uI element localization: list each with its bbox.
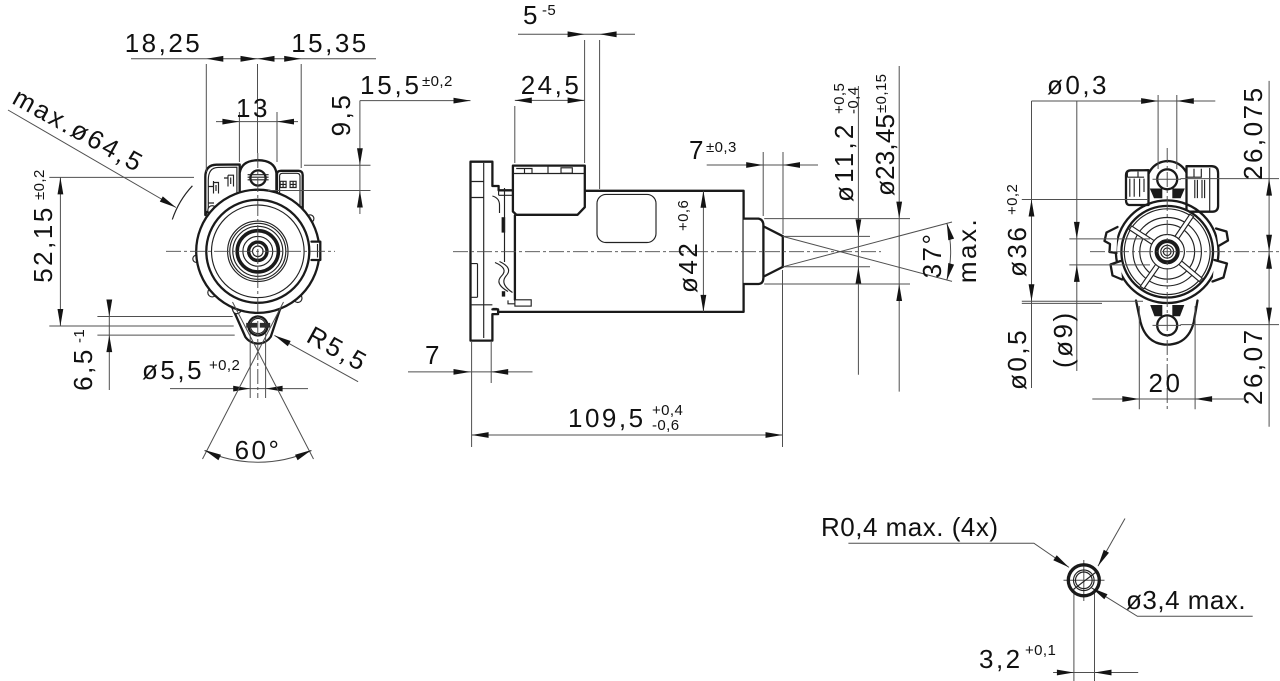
R5,5 text [302,320,373,378]
dia 5,5 ext lines [250,333,265,398]
spring washer wavy clip [495,263,508,292]
R5,5 leader line [274,335,358,381]
dim dia0,5 ext line [1022,302,1102,304]
dim 26,075 text [1238,85,1268,180]
dim 24,5 dimension line [515,99,585,101]
svg-text:ø5,5: ø5,5 [142,355,204,385]
circle r25 [233,226,283,276]
dim 26,075 arrows [1266,179,1272,196]
drum rim circle [1124,209,1210,295]
shaft tip face [782,236,784,267]
rear right block [1187,166,1219,212]
svg-text:-5: -5 [542,2,556,19]
svg-text:24,5: 24,5 [521,70,582,100]
dim 7pm0,3 ext lines [763,152,783,234]
rear right block inner rect [1187,169,1201,177]
center line side view [453,251,881,253]
dim 18,25 arrows [206,56,223,62]
dim 5 ext lines [585,40,600,189]
dim dia42 dimension line [702,191,704,312]
dim 13 dimension line [216,121,298,123]
dim 6,5 vertical line [108,300,110,390]
dim 15,5 dimension line [360,100,471,102]
bottom tab outline [230,302,283,344]
60deg V line left [203,302,284,459]
hub dark annulus [1157,241,1178,262]
R0,4 second leader [1098,519,1125,567]
R0,4 leader underline [848,543,1069,567]
bottom hole horizontal tick [1153,324,1182,326]
svg-text:(ø9): (ø9) [1048,310,1078,368]
dim 20 arrows [1122,396,1139,402]
dim 52,15 vertical line [59,177,61,326]
dim 6,5 text [68,329,98,391]
svg-text:+0,2: +0,2 [209,357,240,374]
svg-text:+0,1: +0,1 [1025,642,1056,659]
dim dia9 vertical line [1076,101,1078,371]
rear left block pins [1130,179,1144,197]
center line vertical [257,64,259,153]
pin crosshair horizontal [1064,579,1105,581]
dim dia11,2 ext lines [784,236,870,266]
bottom wedge left [1150,305,1162,316]
rear left block [1126,170,1149,205]
taper X line upper [783,236,952,281]
connector block side [513,166,585,215]
spoke down-left [1140,263,1160,288]
flange top inner lines [471,182,484,198]
connector right block pin 1 [280,181,286,187]
svg-text:7: 7 [689,135,706,165]
connector right block inner contour [280,173,300,210]
connector top inner line [514,173,585,175]
dim 13 arrows [222,119,239,125]
svg-text:+0,6: +0,6 [675,200,692,231]
connector top slot 3 [561,168,572,173]
spoke up-right [1174,214,1193,240]
hub ring r17 [1150,235,1184,269]
dim dia11,2 arrows [856,219,862,236]
pin inner ring [1076,572,1093,589]
dim dia11,2 dimension line [857,86,859,375]
dim 109,5 ext lines [472,270,783,447]
dim dia36 ext line top [1022,199,1149,201]
top tab hole [1157,169,1177,189]
body front face [514,215,516,299]
flange clip dark bar top [502,217,506,232]
connector left block pin 1 [214,183,219,194]
dim 5 dimension line [518,33,635,35]
svg-text:18,25: 18,25 [125,28,203,58]
svg-text:ø0,5: ø0,5 [1002,328,1032,390]
dim dia36 ext line bottom [1022,300,1143,302]
dim 18,25 ext line left [205,64,207,172]
svg-text:109,5: 109,5 [568,403,646,433]
dim dia9 arrows [1074,222,1080,239]
center line horizontal [166,250,335,252]
circumference lug 250deg [233,305,241,313]
dim 9,5 ext line top [304,164,371,166]
label pocket rounded rect [597,194,656,242]
top hole horizontal tick [1153,178,1182,180]
svg-text:-0,4: -0,4 [845,87,862,114]
circumference lug 138deg [208,206,217,215]
max dia 64,5 leader text [8,82,150,179]
bottom tab hole [1157,315,1177,335]
connector right block outline [277,171,303,213]
dim 18,25 dimension line [131,58,376,60]
dim 52,15 text [28,169,58,282]
silhouette right lower lug [1213,260,1228,282]
rear left block inner rect [1127,172,1144,178]
top arch hole [250,170,265,185]
rear bottom tab [1136,301,1198,345]
dim dia36 arrows [1029,200,1035,217]
connector right block pin 2 [290,181,296,187]
flange inner rect detail [471,264,478,298]
dim 24,5 arrows [515,98,532,104]
svg-text:7: 7 [425,340,442,370]
dim 26,07 text [1238,327,1268,405]
svg-text:±0,3: ±0,3 [706,139,737,156]
dim 7 ext line [490,342,492,383]
dim dia11,2 text [829,83,862,202]
circumference lug 222deg [208,288,217,297]
dia 5,5 dimension line [170,388,308,390]
max. text [952,217,982,283]
dim 26,075 ext line [1180,178,1279,180]
dia3,4 leader underline [1092,588,1253,617]
dim dia36 vertical line [1031,101,1033,388]
dim 52,15 ext line top [49,176,194,178]
connector left block outline [205,165,239,216]
silhouette right tooth [1216,229,1228,247]
svg-text:-0,6: -0,6 [652,417,679,434]
shaft ring thick [249,242,267,260]
37deg text [917,232,947,279]
svg-text:±0,2: ±0,2 [422,73,453,90]
top wedge left [1150,189,1163,199]
circle r28 [230,223,286,279]
svg-text:5: 5 [523,0,540,30]
60deg arc arrows [205,450,222,460]
shaft center circle [252,246,263,257]
circle r15 [243,236,273,266]
bottom wedge right [1172,305,1184,316]
pin outer ring [1068,565,1099,596]
rim circle [206,200,309,303]
inner circle r27 [1140,224,1195,279]
dim 7 dimension line [408,371,533,373]
svg-text:15,35: 15,35 [291,28,369,58]
shaft cone lower [764,267,783,277]
pin diagonal slash [1074,573,1096,590]
max dia 64,5 arrowhead [160,196,176,207]
pin shank ext lines [1074,589,1095,681]
flange bottom inner line [471,304,493,306]
svg-text:15,5: 15,5 [360,70,422,100]
svg-text:9,5: 9,5 [326,93,356,137]
dim 52,15 arrows [58,177,64,194]
svg-text:ø42: ø42 [673,241,703,293]
37deg arc [947,223,951,280]
dim 9,5 vertical line [359,101,361,214]
flange clip dark bar bottom [502,291,505,296]
60deg arc [205,451,312,463]
bearing ring thick [237,231,278,272]
dim 20 dimension line [1092,398,1245,400]
dim dia9 text [1048,310,1078,368]
svg-text:26,075: 26,075 [1238,85,1268,180]
taper X line lower [783,222,952,267]
37deg arc arrows [947,223,954,240]
dim dia42 text [673,200,703,293]
flange outline [471,162,515,341]
thin circle r46 [211,205,304,298]
svg-text:ø11,2: ø11,2 [829,121,859,202]
flange neck lower line [499,190,515,195]
spoke down-right [1178,260,1202,281]
dim dia36 text [1002,184,1032,277]
svg-text:26,07: 26,07 [1238,327,1268,405]
max dia 64,5 envelope arc [172,186,192,220]
spoke up-left [1129,226,1155,245]
dim dia42 arrows [701,191,707,208]
circumference lug 187deg [193,255,200,262]
dim 3,2 arrows [1057,670,1074,676]
top wedge right [1172,189,1185,199]
dim 15,35 ext line right [300,64,302,168]
right side clip tab [312,242,321,260]
svg-text:20: 20 [1149,368,1183,398]
R5,5 arrowhead [274,335,290,346]
motor body outline [492,191,743,312]
svg-text:-1: -1 [71,329,88,343]
dim 3,2 dimension line [1053,672,1138,674]
connector left block pin 2 [228,175,234,186]
inner circle r34 [1133,218,1201,286]
svg-text:13: 13 [236,93,270,123]
rear center line horizontal [1090,251,1279,253]
dim 13 ext lines [239,112,277,162]
rear top tab [1144,161,1192,206]
dim 9,5 ext line bottom [268,190,371,192]
top arch lobe [240,160,277,196]
dim dia0,3 dimension line [1032,100,1216,102]
silhouette left tooth [1105,227,1118,253]
collar boss [744,219,764,284]
flange clip hook top [492,196,499,213]
dim 6,5 ext line top [97,316,232,318]
svg-text:max.: max. [952,217,982,283]
tab hole key marks [246,323,270,328]
motor outer circle [196,190,319,313]
dim 9,5 text [326,93,356,137]
tab hole inner [250,318,265,333]
bottom foot tab [515,300,531,306]
svg-text:37°: 37° [917,232,947,279]
top arch hole thread lines [248,175,269,180]
max dia 64,5 leader line [8,110,176,208]
dia 5,5 arrows [233,386,250,392]
svg-text:ø0,3: ø0,3 [1047,70,1109,100]
dim 15,5 arrow [454,98,471,104]
R0,4 second arrowhead [1098,550,1109,566]
circumference lug 310deg [294,294,302,302]
hub ring r6 [1161,245,1174,258]
svg-text:±0,2: ±0,2 [31,169,48,200]
rear right block vertical line [1209,168,1211,211]
hub center [1163,248,1171,256]
connector left block step lines [208,178,228,203]
dim 9,5 arrows [357,148,363,165]
svg-text:3,2: 3,2 [979,644,1023,674]
dim 26,075 vertical line [1268,81,1270,252]
dim dia23,45 arrows [896,202,902,219]
svg-text:60°: 60° [235,435,282,465]
dim 6,5 arrows [106,300,112,317]
dim 24,5 ext line left [514,106,516,163]
dim 7pm0,3 arrows [746,162,763,168]
dim 7 arrows [454,369,471,375]
circumference lug 32deg [306,215,314,223]
dim 5 arrows [568,31,585,37]
dim dia9 ext lines [1069,239,1150,265]
R0,4 arrowhead [1053,555,1069,567]
dim 26,07 arrows [1266,252,1272,269]
flange inner vertical line [483,163,485,338]
dim 20 ext lines [1139,306,1195,409]
svg-text:ø36: ø36 [1002,225,1032,277]
dim 109,5 arrows [472,432,489,438]
svg-text:+0,2: +0,2 [1004,184,1021,215]
dim 6,5 ext line bottom [97,334,234,336]
dim 109,5 dimension line [472,434,783,436]
dim dia23,45 text [870,74,900,196]
housing silhouette circle [1116,200,1219,303]
dim dia0,5 text [1002,328,1032,390]
dim dia23,45 ext lines [764,219,910,284]
pin crosshair vertical [1083,560,1085,601]
rear center line vertical [1166,148,1168,410]
pin mid circle [1074,570,1095,591]
dim dia23,45 dimension line [898,66,900,392]
dim 26,07 ext line [1180,324,1279,326]
dia3,4 arrowhead [1092,588,1108,600]
svg-text:±0,15: ±0,15 [873,74,890,113]
flange mid vertical line [504,188,506,262]
connector left block inner contour [208,167,237,210]
dim dia0,3 ext lines [1158,95,1177,169]
silhouette left lower lug [1111,261,1123,280]
svg-text:ø23,45: ø23,45 [870,114,900,196]
dim 26,07 vertical line [1268,252,1270,427]
dim 52,15 ext line bottom [49,325,233,327]
bottom foot small rect [508,300,515,303]
shaft cone upper [764,227,783,237]
connector top slot 2 [532,166,548,174]
svg-text:52,15: 52,15 [28,205,58,283]
60deg V line right [233,302,314,459]
circle r30 [228,221,288,281]
dim dia0,3 arrows [1141,98,1158,104]
dim 7pm0,3 dimension line [707,164,818,166]
rear right block pins [1195,180,1205,198]
svg-text:R0,4 max. (4x): R0,4 max. (4x) [821,512,999,542]
tab hole outer [249,317,268,336]
connector top slot 1 [516,169,532,174]
drum circle [1121,206,1213,298]
svg-text:ø3,4 max.: ø3,4 max. [1126,585,1246,615]
dim 15,35 arrows [258,56,275,62]
svg-text:6,5: 6,5 [68,347,98,391]
